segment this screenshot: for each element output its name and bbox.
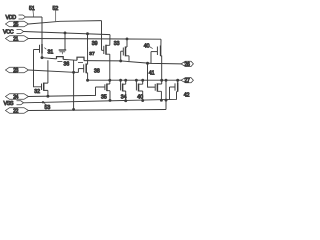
wire VSS line: [24, 92, 177, 103]
terminal 27: [181, 78, 193, 85]
transistor 41: [155, 83, 162, 91]
wire T35 source to VSS: [109, 91, 111, 101]
transistor 31: [34, 44, 43, 54]
transistor 36 inline: [57, 57, 64, 62]
terminal VCC: [3, 30, 24, 36]
svg-text:38: 38: [94, 68, 100, 74]
junction VSS at 43: [42, 101, 44, 103]
svg-text:26: 26: [184, 62, 190, 68]
wire 21 drop to T39: [126, 39, 128, 47]
wire T39 gate to node A: [120, 51, 122, 61]
svg-text:37: 37: [89, 51, 95, 57]
wire T39 source to node A: [128, 56, 130, 61]
junction 22 line at 73.6: [72, 108, 75, 111]
transistor 32: [42, 83, 48, 91]
transistor 38: [78, 64, 87, 74]
wire node B drop to 22 line: [165, 80, 167, 109]
wire T41 source to VSS: [160, 91, 162, 100]
wire node A segment b: [63, 58, 77, 61]
junction 24 line: [46, 95, 49, 98]
junction VSS at 110: [109, 99, 112, 102]
junction node B at 136.4: [135, 79, 138, 82]
label 53: [44, 103, 50, 112]
label 51: [29, 6, 35, 17]
junction VCC bus at 65: [64, 31, 67, 34]
wire 23 line: [29, 70, 79, 72]
junction node B at 177.7: [176, 79, 179, 82]
wire VCC drop to pass gate: [64, 33, 66, 50]
transistor 42: [170, 80, 178, 99]
label 52: [53, 6, 59, 21]
svg-text:42: 42: [184, 93, 190, 99]
junction node B at 109.8: [108, 79, 111, 82]
svg-text:34: 34: [121, 95, 127, 101]
wire T34 drain to node B: [125, 80, 127, 84]
wire 24 line: [29, 87, 96, 97]
svg-text:40: 40: [144, 44, 150, 50]
wire 52 bus: [29, 21, 102, 24]
wire 23 drop to 22 line: [73, 60, 75, 109]
junction VSS at 125.7: [124, 99, 127, 102]
svg-text:36: 36: [64, 62, 70, 68]
junction node B at 120.6: [119, 79, 122, 82]
wire VCC drop to T38: [87, 34, 89, 65]
svg-text:33: 33: [114, 41, 120, 47]
transistor 40: [151, 46, 161, 57]
terminal VSS: [4, 101, 24, 107]
wire T31 to node A: [41, 54, 43, 58]
svg-text:VDD: VDD: [6, 15, 17, 21]
wire 22 line: [29, 110, 167, 111]
wire T32 drain to node A: [47, 60, 49, 83]
junction node A at 147.5: [146, 62, 149, 65]
wire VDD drop: [41, 17, 43, 44]
wire T41 gate feed: [148, 63, 156, 87]
label 40 top: [144, 44, 153, 50]
wire node A segment c: [84, 61, 181, 64]
svg-text:VSS: VSS: [4, 101, 14, 107]
terminal 25: [6, 21, 29, 28]
terminal 24: [6, 94, 29, 101]
junction node A at 120.7: [119, 59, 122, 62]
terminal 26: [181, 61, 193, 68]
transistor 34: [121, 80, 126, 91]
terminal 21: [6, 36, 29, 43]
junction node B: [86, 79, 89, 82]
transistor 35: [96, 84, 111, 92]
svg-text:VCC: VCC: [3, 30, 14, 36]
wire T40 source to node B: [161, 56, 162, 84]
wire cross couple: [34, 50, 42, 87]
svg-text:39: 39: [92, 41, 98, 47]
wire 51 VDD: [26, 16, 43, 18]
junction node B at 142.7: [141, 79, 144, 82]
svg-text:40: 40: [137, 95, 143, 101]
wire T34 source to VSS: [125, 91, 127, 101]
wire T32 source to 24 line: [47, 90, 49, 96]
svg-text:22: 22: [13, 109, 18, 115]
junction node B at 125.7: [124, 79, 127, 82]
pass transistor top bar: [59, 50, 66, 54]
wire T33 source to node B: [109, 54, 111, 84]
wire T40b drain to node B: [142, 80, 144, 84]
wire T40b source to VSS: [142, 91, 144, 101]
transistor 33: [102, 45, 110, 55]
junction node B at 166: [165, 79, 168, 82]
junction VSS at 142.7: [141, 99, 144, 102]
wire 21 end drop: [160, 39, 162, 45]
wire T38 to node B: [87, 73, 89, 80]
wire T40 gate to node A: [150, 52, 152, 64]
wire 21 bus: [29, 38, 162, 41]
terminal 23: [6, 67, 29, 74]
junction VSS at 161.4: [160, 99, 163, 102]
svg-text:41: 41: [149, 70, 155, 76]
svg-text:21: 21: [13, 37, 18, 43]
transistor 40b: [136, 80, 142, 91]
wire VCC bus: [24, 32, 111, 35]
junction VSS at 166: [165, 99, 168, 102]
terminal 22: [6, 108, 29, 115]
junction VCC bus at 87.5: [86, 32, 89, 35]
svg-text:24: 24: [13, 95, 18, 101]
wire T38 gate drop: [77, 69, 79, 73]
junction 21 bus at 127: [126, 37, 129, 40]
svg-text:25: 25: [13, 22, 18, 28]
wire node B: [88, 79, 181, 81]
wire node A segment a: [42, 58, 57, 59]
svg-text:51: 51: [29, 6, 35, 12]
svg-text:23: 23: [13, 68, 18, 74]
svg-text:27: 27: [184, 78, 190, 84]
svg-text:35: 35: [101, 95, 107, 101]
terminal VDD: [6, 15, 26, 21]
junction node B at 161.7: [160, 79, 163, 82]
svg-text:32: 32: [34, 89, 40, 95]
junction node A: [41, 56, 44, 59]
wire VCC end drop: [109, 35, 111, 46]
transistor 39: [121, 47, 129, 57]
junction 23 line: [72, 71, 75, 74]
svg-text:31: 31: [48, 50, 54, 56]
wire 52 drop: [101, 21, 103, 51]
transistor 37 inline: [77, 57, 84, 62]
